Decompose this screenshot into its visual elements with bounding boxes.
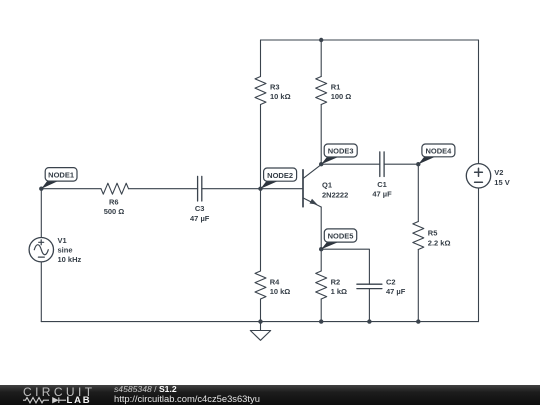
svg-text:NODE2: NODE2 (267, 171, 293, 180)
junction bottom C2 (367, 319, 371, 323)
junction bottom R2 (319, 319, 323, 323)
svg-text:R6: R6 (109, 198, 119, 207)
ground (250, 322, 270, 341)
resistor R6 (101, 183, 129, 194)
logo LAB (67, 395, 92, 405)
svg-text:C2: C2 (386, 278, 396, 287)
node NODE5 junction (319, 247, 323, 251)
node label NODE5 (321, 229, 356, 249)
svg-text:NODE5: NODE5 (328, 232, 354, 241)
wire R5 to bottom rail (417, 250, 419, 322)
wire top rail (261, 39, 479, 41)
wire signal NODE1 to R6 (41, 188, 101, 190)
wire NODE3 to C1 (321, 163, 380, 165)
wire bottom rail (41, 321, 478, 323)
svg-text:47 µF: 47 µF (386, 287, 406, 296)
capacitor C1 (380, 152, 384, 177)
wire R6 to C3 (129, 188, 198, 190)
wire C2 to bottom rail (368, 289, 370, 322)
svg-text:NODE4: NODE4 (425, 147, 452, 156)
svg-text:C3: C3 (195, 204, 205, 213)
wire R2 to bottom rail (320, 299, 322, 322)
junction bottom R4 (258, 319, 262, 323)
wire R4 to bottom rail (260, 299, 262, 322)
svg-text:R1: R1 (331, 83, 341, 92)
svg-text:R4: R4 (270, 278, 280, 287)
svg-text:100 Ω: 100 Ω (331, 92, 352, 101)
svg-text:2N2222: 2N2222 (322, 191, 348, 200)
svg-text:10 kΩ: 10 kΩ (270, 287, 291, 296)
svg-text:1 kΩ: 1 kΩ (331, 287, 347, 296)
svg-text:15 V: 15 V (494, 178, 509, 187)
source V2 (466, 164, 490, 188)
svg-text:47 µF: 47 µF (190, 214, 210, 223)
node label NODE2 (261, 168, 297, 189)
svg-text:V1: V1 (58, 236, 67, 245)
footer url text (114, 393, 260, 404)
svg-text:R5: R5 (428, 229, 438, 238)
junction R1 top (319, 38, 323, 42)
resistor R4 (255, 271, 266, 299)
svg-text:V2: V2 (494, 168, 503, 177)
wire R2 NODE5 to zigzag (320, 249, 322, 271)
svg-text:C1: C1 (377, 180, 387, 189)
resistor R2 (316, 271, 327, 299)
node NODE2 junction (258, 187, 262, 191)
wire left rail lower (40, 262, 42, 322)
node NODE4 junction (416, 162, 420, 166)
wire right rail lower (478, 188, 480, 322)
svg-text:10 kΩ: 10 kΩ (270, 92, 291, 101)
wire R3 to NODE2 (260, 105, 262, 189)
svg-text:NODE1: NODE1 (48, 171, 74, 180)
wire right rail upper (478, 40, 480, 164)
resistor R1 (316, 77, 327, 105)
wire NODE5 to C2 (321, 249, 369, 284)
node label NODE3 (321, 144, 357, 164)
footer title text (114, 384, 177, 394)
wire R1 to NODE3 (320, 105, 322, 165)
node NODE1 junction (39, 187, 43, 191)
wire Q1 emitter to NODE5 (320, 207, 322, 249)
svg-text:NODE3: NODE3 (328, 147, 354, 156)
wire C1 to NODE4 (384, 163, 418, 165)
svg-text:10 kHz: 10 kHz (58, 255, 82, 264)
junction bottom R5 (416, 319, 420, 323)
wire R1 top stub (320, 40, 322, 77)
wire left rail upper (40, 189, 42, 238)
wire NODE4 to R5 (417, 164, 419, 221)
transistor Q1 (303, 165, 321, 207)
svg-text:sine: sine (58, 246, 73, 255)
wire C3 to Q1 base (202, 188, 303, 190)
svg-text:47 µF: 47 µF (372, 190, 392, 199)
capacitor C2 (357, 284, 382, 288)
logo resistor-diode glyph (22, 394, 68, 405)
wire R3 top stub (260, 40, 262, 77)
svg-text:R3: R3 (270, 83, 280, 92)
node NODE3 junction (319, 162, 323, 166)
resistor R3 (255, 77, 266, 105)
source V1 (29, 238, 53, 262)
svg-text:500 Ω: 500 Ω (104, 207, 125, 216)
resistor R5 (413, 222, 424, 250)
capacitor C3 (198, 176, 202, 201)
svg-text:2.2 kΩ: 2.2 kΩ (428, 238, 451, 247)
node label NODE1 (41, 168, 77, 189)
node label NODE4 (418, 144, 455, 164)
footer bar (0, 385, 540, 405)
svg-text:Q1: Q1 (322, 181, 332, 190)
wire NODE2 to R4 (260, 189, 262, 271)
svg-text:R2: R2 (331, 278, 341, 287)
logo CIRCUIT (23, 385, 95, 399)
